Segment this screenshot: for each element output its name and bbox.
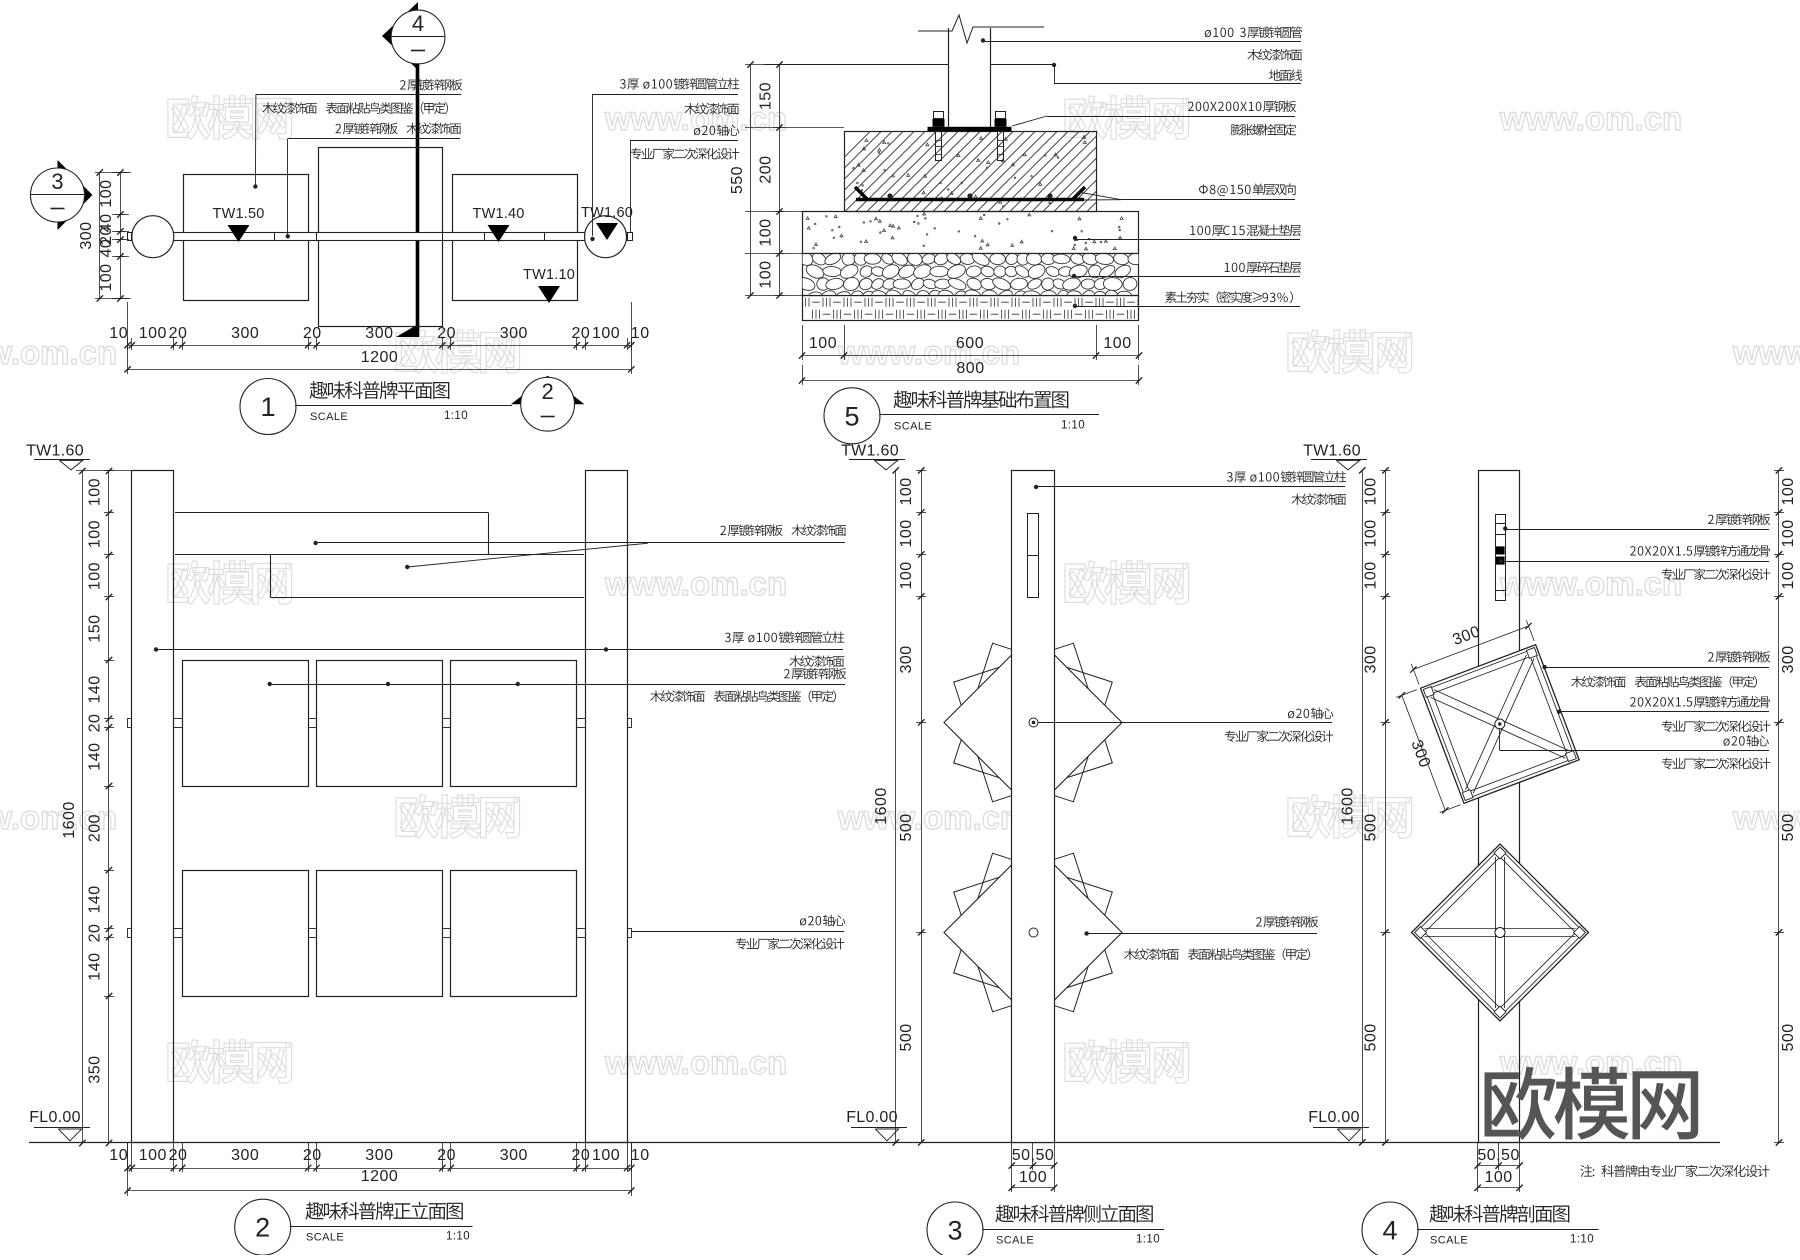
svg-text:100: 100 [1363,477,1380,505]
svg-text:100: 100 [758,260,775,288]
svg-text:20: 20 [87,924,104,943]
svg-text:10: 10 [109,325,128,342]
svg-text:100: 100 [1780,519,1797,547]
svg-text:1:10: 1:10 [1570,1234,1594,1246]
svg-text:2: 2 [541,379,553,404]
svg-text:1:10: 1:10 [446,1231,470,1243]
svg-text:TW1.60: TW1.60 [581,205,633,221]
svg-text:300: 300 [78,221,95,249]
svg-text:300: 300 [231,325,259,342]
svg-text:150: 150 [87,614,104,642]
svg-text:10: 10 [631,1147,650,1164]
svg-text:1600: 1600 [1340,787,1357,825]
svg-text:300: 300 [898,645,915,673]
svg-text:1600: 1600 [61,801,78,839]
svg-text:100: 100 [898,519,915,547]
svg-text:300: 300 [500,325,528,342]
svg-text:300: 300 [231,1147,259,1164]
svg-text:10: 10 [631,325,650,342]
svg-text:FL0.00: FL0.00 [29,1109,81,1126]
svg-text:50,50: 50,50 [1012,1147,1055,1164]
svg-text:500: 500 [1363,813,1380,841]
svg-text:1:10: 1:10 [444,410,468,422]
svg-text:1200: 1200 [361,349,399,366]
svg-text:www.om.cn: www.om.cn [0,334,117,371]
svg-text:SCALE: SCALE [1430,1235,1468,1247]
svg-text:FL0.00: FL0.00 [846,1109,898,1126]
svg-text:300: 300 [500,1147,528,1164]
svg-text:1:10: 1:10 [1061,419,1085,431]
svg-text:20: 20 [437,325,456,342]
svg-text:1200: 1200 [361,1168,399,1185]
svg-text:5: 5 [844,401,859,431]
svg-text:20: 20 [437,1147,456,1164]
svg-text:300: 300 [365,1147,393,1164]
svg-text:140: 140 [87,885,104,913]
svg-text:SCALE: SCALE [306,1232,344,1244]
svg-text:500: 500 [898,813,915,841]
svg-text:500: 500 [898,1023,915,1051]
svg-text:3: 3 [947,1216,962,1246]
svg-text:40: 40 [98,239,115,258]
svg-text:TW1.40: TW1.40 [473,206,525,222]
svg-text:500: 500 [1363,1023,1380,1051]
svg-text:100: 100 [1780,477,1797,505]
svg-text:www.om.cn: www.om.cn [1499,565,1682,602]
svg-text:20: 20 [303,1147,322,1164]
svg-text:100: 100 [139,1147,167,1164]
svg-text:FL0.00: FL0.00 [1308,1109,1360,1126]
svg-text:300: 300 [365,325,393,342]
svg-text:20: 20 [572,325,591,342]
svg-text:500: 500 [1780,1023,1797,1051]
svg-text:100: 100 [1019,1169,1047,1186]
svg-text:100: 100 [87,562,104,590]
svg-text:100: 100 [87,478,104,506]
svg-text:100: 100 [1780,561,1797,589]
svg-text:3: 3 [51,169,63,194]
svg-text:www.om.cn: www.om.cn [837,799,1020,836]
svg-text:www.om.cn: www.om.cn [1732,334,1800,371]
svg-text:100: 100 [1484,1169,1512,1186]
svg-text:100: 100 [98,179,115,207]
svg-text:10: 10 [109,1147,128,1164]
svg-text:1600: 1600 [873,787,890,825]
svg-text:100: 100 [139,325,167,342]
svg-text:www.om.cn: www.om.cn [837,334,1020,371]
svg-text:20: 20 [572,1147,591,1164]
svg-text:SCALE: SCALE [310,411,348,423]
svg-text:www.om.cn: www.om.cn [1499,100,1682,137]
svg-text:www.om.cn: www.om.cn [604,565,787,602]
svg-text:140: 140 [87,675,104,703]
svg-text:140: 140 [87,742,104,770]
svg-text:100: 100 [809,335,837,352]
svg-text:100: 100 [898,561,915,589]
svg-text:www.om.cn: www.om.cn [604,1044,787,1081]
svg-text:TW1.50: TW1.50 [213,206,265,222]
svg-text:1: 1 [260,392,275,422]
svg-text:2: 2 [255,1213,270,1243]
svg-text:200: 200 [758,155,775,183]
svg-text:100: 100 [592,325,620,342]
svg-text:TW1.10: TW1.10 [523,267,575,283]
svg-text:140: 140 [87,952,104,980]
svg-text:100: 100 [1363,561,1380,589]
svg-text:20: 20 [169,1147,188,1164]
svg-text:150: 150 [758,82,775,110]
svg-text:TW1.60: TW1.60 [841,442,899,459]
svg-text:600: 600 [956,335,984,352]
svg-text:550: 550 [729,166,746,194]
svg-text:SCALE: SCALE [894,420,932,432]
svg-text:100: 100 [98,263,115,291]
svg-text:500: 500 [1780,813,1797,841]
svg-text:100: 100 [898,477,915,505]
svg-text:200: 200 [87,814,104,842]
svg-text:800: 800 [956,360,984,377]
svg-text:100: 100 [1363,519,1380,547]
svg-text:100: 100 [1103,335,1131,352]
svg-text:300: 300 [1780,645,1797,673]
svg-text:350: 350 [87,1055,104,1083]
svg-text:20: 20 [169,325,188,342]
svg-text:4: 4 [1382,1216,1397,1246]
svg-text:100: 100 [758,218,775,246]
svg-text:50,50: 50,50 [1477,1147,1520,1164]
svg-text:100: 100 [592,1147,620,1164]
svg-text:1:10: 1:10 [1136,1234,1160,1246]
svg-text:TW1.60: TW1.60 [26,442,84,459]
svg-text:TW1.60: TW1.60 [1303,442,1361,459]
svg-text:100: 100 [87,520,104,548]
svg-text:300: 300 [1363,645,1380,673]
svg-text:SCALE: SCALE [996,1235,1034,1247]
svg-text:4: 4 [412,11,424,36]
svg-text:20: 20 [87,714,104,733]
svg-text:20: 20 [303,325,322,342]
